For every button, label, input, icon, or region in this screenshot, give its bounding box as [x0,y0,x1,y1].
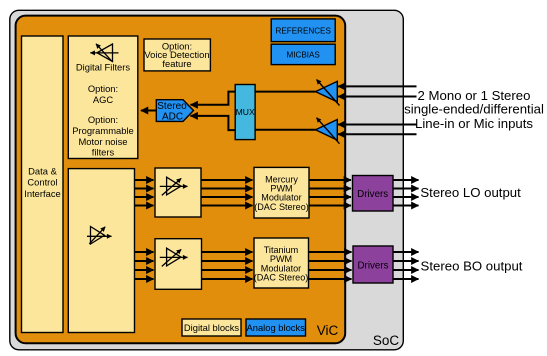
svg-text:AGC: AGC [93,94,114,105]
wire: input amp 2 to MUX [255,129,315,131]
svg-text:2 Mono or 1 Stereo: 2 Mono or 1 Stereo [418,88,531,103]
bus: amp1 to Mercury [201,180,253,206]
bus: processing to amp2 [135,252,154,279]
Stereo ADC block [156,100,193,122]
svg-text:ADC: ADC [162,112,183,123]
svg-text:Stereo: Stereo [157,101,187,112]
bus: processing to amp1 [135,180,154,206]
MUX block [235,85,255,140]
svg-text:(DAC Stereo): (DAC Stereo) [254,273,309,283]
svg-text:Stereo BO output: Stereo BO output [421,259,523,274]
svg-text:filters: filters [92,146,115,157]
REFERENCES block [271,19,335,42]
input amp 1 (triangle) [316,81,338,102]
legend: Analog blocks [246,319,306,336]
svg-text:SoC: SoC [373,333,400,348]
processing block (unlabeled, with amp icon) [68,169,134,333]
svg-text:Data &: Data & [28,165,57,176]
wire: input amp 1 to MUX [255,91,315,93]
svg-text:Option:: Option: [88,114,118,125]
bus: Mercury to Drivers1 [309,180,351,206]
bus: amp2 to Titanium [202,252,253,279]
svg-text:(DAC Stereo): (DAC Stereo) [254,202,309,212]
SoC box [10,10,404,350]
Option: Voice Detection feature box [144,39,210,71]
svg-text:Line-in or Mic inputs: Line-in or Mic inputs [415,116,533,131]
amp block 2 [155,239,202,290]
svg-text:Digital Filters: Digital Filters [76,62,130,73]
input line 4 [338,133,417,135]
svg-text:Control: Control [27,177,57,188]
wire: ADC to Digital Filters [141,110,157,112]
Mercury PWM Modulator block [254,167,309,218]
svg-text:Drivers: Drivers [357,189,388,200]
processing amp icon [87,227,112,245]
wire: MUX to ADC (lower) [191,116,236,130]
svg-text:Option:: Option: [88,83,118,94]
svg-text:MICBIAS: MICBIAS [287,50,321,59]
digital filters amp icon [90,44,118,62]
svg-text:Motor noise: Motor noise [79,136,128,147]
svg-text:Analog blocks: Analog blocks [247,322,306,333]
amp block 1 [155,168,201,217]
bus: Drivers1 outputs [393,180,419,206]
svg-text:Drivers: Drivers [357,261,388,272]
legend: Digital blocks [182,319,241,336]
svg-text:REFERENCES: REFERENCES [276,26,332,35]
svg-text:single-ended/differential: single-ended/differential [404,102,544,117]
svg-text:ViC: ViC [317,323,339,338]
svg-text:feature: feature [162,58,191,69]
MICBIAS block [271,44,335,64]
Digital Filters block [68,36,138,159]
input line 1 [338,85,417,87]
svg-text:MUX: MUX [236,107,255,117]
svg-text:Interface: Interface [24,188,60,199]
bus: Titanium to Drivers2 [309,252,352,279]
Drivers block 2 [353,246,393,283]
input line 2 [338,96,417,98]
bus: Drivers2 outputs [393,252,419,279]
svg-text:Stereo LO output: Stereo LO output [420,185,521,200]
ViC box [16,16,346,344]
Data & Control Interface block [22,36,64,333]
svg-text:Programmable: Programmable [72,125,133,136]
input line 3 [338,124,417,126]
Titanium PWM Modulator block [254,238,309,288]
svg-text:Digital blocks: Digital blocks [184,322,240,333]
input amp 2 (triangle) [316,120,338,141]
Drivers block 1 [353,176,394,212]
wire: MUX to ADC (upper) [191,92,236,105]
